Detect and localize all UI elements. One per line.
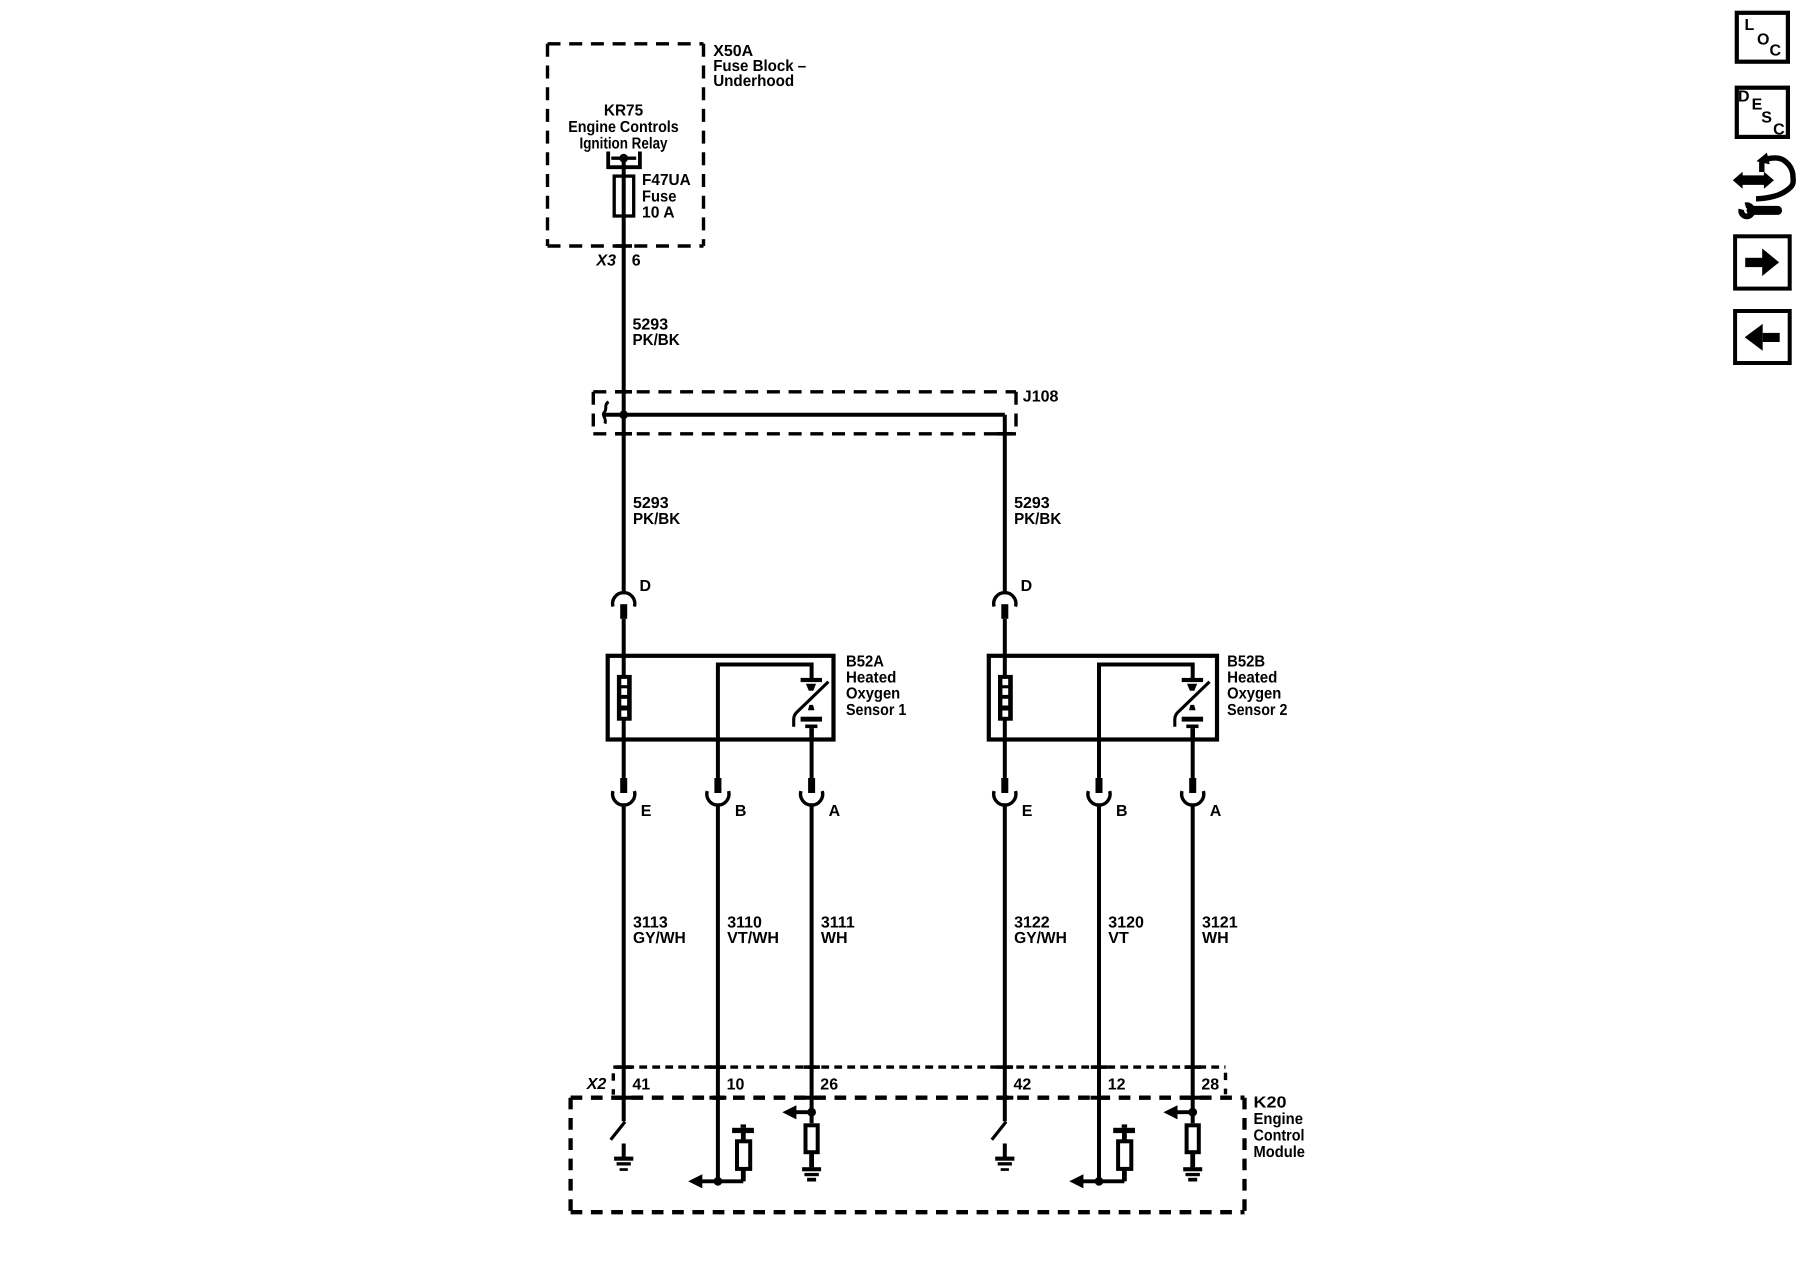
label KR75 Engine Controls Ignition Relay xyxy=(568,102,679,152)
svg-text:WH: WH xyxy=(821,930,848,947)
X2 dotted line left end bracket xyxy=(612,1073,615,1094)
svg-text:B: B xyxy=(1116,803,1128,820)
fuse F47UA xyxy=(614,176,634,216)
wire 3111 connector A to ECM pin 26 xyxy=(810,803,814,1123)
ticks at X2 dotted line wire crossings xyxy=(616,1065,1202,1069)
svg-text:GY/WH: GY/WH xyxy=(633,930,686,947)
label B52A Heated Oxygen Sensor 1 xyxy=(846,653,906,719)
label X50A Fuse Block - Underhood xyxy=(713,43,806,90)
wire D to sensor box right xyxy=(1003,619,1007,656)
resistor pin 26 xyxy=(806,1125,818,1167)
svg-text:C: C xyxy=(1773,122,1785,139)
svg-text:12: 12 xyxy=(1108,1076,1126,1093)
splice entry hook xyxy=(603,402,608,424)
wire 3121 connector A to ECM pin 28 xyxy=(1191,803,1195,1123)
svg-text:Fuse: Fuse xyxy=(642,188,676,205)
wire 3122 connector E to ECM pin 42 xyxy=(1003,803,1007,1121)
ground symbol pin 28 xyxy=(1183,1167,1202,1181)
heater element B52A xyxy=(617,675,632,721)
heated oxygen sensor B52A box xyxy=(608,656,834,740)
splice bus wire J108 xyxy=(604,413,1005,417)
ticks at J108 wire crossings xyxy=(616,390,633,394)
wire label 3121 WH xyxy=(1202,914,1238,946)
wire 3120 connector B to ECM pin 12 xyxy=(1097,803,1101,1181)
svg-text:5293: 5293 xyxy=(633,317,669,334)
svg-text:Engine Controls: Engine Controls xyxy=(568,119,679,136)
wire 3110 connector B to ECM pin 10 xyxy=(716,803,720,1181)
svg-text:PK/BK: PK/BK xyxy=(633,332,681,349)
wire label 3110 VT/WH xyxy=(727,914,779,946)
svg-text:B: B xyxy=(735,803,747,820)
svg-text:26: 26 xyxy=(820,1076,838,1093)
pull-up resistor pin 12 xyxy=(1118,1132,1131,1181)
svg-text:Heated: Heated xyxy=(846,670,896,687)
fuse block X50A dashed box xyxy=(548,44,704,246)
wire label 3122 GY/WH xyxy=(1014,914,1067,946)
icon circuit navigation (double arrow, loop, wrench) xyxy=(1733,153,1793,217)
pin label X3 | 6 xyxy=(595,252,640,269)
icon box previous-page arrow xyxy=(1735,311,1790,363)
svg-text:Oxygen: Oxygen xyxy=(846,686,900,703)
svg-text:41: 41 xyxy=(632,1076,650,1093)
connector D left sensor : socket arc xyxy=(613,593,635,607)
sensor cell element B52A xyxy=(794,678,829,728)
ECM K20 dashed box xyxy=(571,1098,1245,1213)
connector socket arc A left xyxy=(800,791,822,805)
wire sensor box to connector pin A left xyxy=(810,740,814,779)
sensor cell element B52B xyxy=(1175,678,1210,728)
wire splice to right sensor connector D xyxy=(1003,415,1007,594)
wire sensor cell to box bottom B52A xyxy=(809,728,814,739)
X2 dotted line right end bracket xyxy=(1224,1073,1227,1095)
connector D right sensor : pin xyxy=(1001,604,1008,619)
sensor cell internal wire B52A xyxy=(718,665,812,742)
ECM signal arrow pin 26 xyxy=(782,1105,811,1119)
wire sensor box to connector pin B right xyxy=(1097,740,1101,779)
ground symbol pin 41 xyxy=(614,1144,633,1171)
svg-text:Ignition Relay: Ignition Relay xyxy=(580,135,668,152)
wire sensor box to connector pin E left xyxy=(622,740,626,779)
svg-text:WH: WH xyxy=(1202,930,1229,947)
internal voltage source bar pin 12 xyxy=(1113,1124,1135,1133)
svg-text:Engine: Engine xyxy=(1254,1111,1304,1128)
ECM driver switch pin 42 xyxy=(992,1122,1006,1140)
svg-text:PK/BK: PK/BK xyxy=(633,511,681,528)
ECM signal arrow pin 10 xyxy=(688,1174,743,1188)
wire through heater B52A xyxy=(622,656,626,676)
ticks at ECM border wire crossings xyxy=(615,1096,1201,1100)
svg-text:E: E xyxy=(641,803,652,820)
svg-text:GY/WH: GY/WH xyxy=(1014,930,1067,947)
svg-text:J108: J108 xyxy=(1023,389,1059,406)
ECM connector X2 dotted line xyxy=(613,1065,1225,1068)
heater element B52B xyxy=(998,675,1013,721)
svg-text:F47UA: F47UA xyxy=(642,172,691,189)
sensor cell internal wire B52B xyxy=(1099,665,1193,742)
svg-text:O: O xyxy=(1757,31,1769,48)
svg-text:K20: K20 xyxy=(1254,1095,1287,1112)
connector socket arc B right xyxy=(1088,791,1110,805)
wire label 3111 WH xyxy=(821,914,855,946)
resistor pin 28 xyxy=(1187,1125,1199,1167)
wire sensor box to connector pin B left xyxy=(716,740,720,779)
wire 3113 connector E to ECM pin 41 xyxy=(622,803,626,1121)
ground symbol pin 26 xyxy=(802,1167,821,1181)
svg-text:X2: X2 xyxy=(586,1076,607,1093)
connector socket arc A right xyxy=(1182,791,1204,805)
splice pack J108 dashed box xyxy=(593,392,1016,434)
svg-text:Sensor 2: Sensor 2 xyxy=(1227,702,1287,719)
label B52B Heated Oxygen Sensor 2 xyxy=(1227,653,1287,719)
wire sensor cell to box bottom B52B xyxy=(1190,728,1195,739)
ECM signal arrow pin 12 xyxy=(1069,1174,1124,1188)
junction dot at splice xyxy=(619,410,628,419)
connector pin A right xyxy=(1189,778,1196,793)
svg-text:X3: X3 xyxy=(595,252,616,269)
pull-up resistor pin 10 xyxy=(737,1132,750,1181)
wire label 5293 PK/BK left branch xyxy=(633,495,681,528)
svg-text:A: A xyxy=(1210,803,1222,820)
svg-text:B52B: B52B xyxy=(1227,653,1265,670)
svg-text:VT/WH: VT/WH xyxy=(727,930,779,947)
icon box DESC xyxy=(1737,88,1788,139)
svg-text:L: L xyxy=(1745,17,1755,34)
ECM driver switch pin 41 xyxy=(611,1122,625,1140)
junction dot pin 10 xyxy=(714,1177,723,1186)
wire splice to left sensor connector D xyxy=(622,415,626,594)
junction dot pin 28 xyxy=(1188,1108,1197,1117)
label K20 Engine Control Module xyxy=(1254,1095,1306,1161)
wire from relay through fuse to X3 pin 6 xyxy=(622,158,626,250)
svg-text:6: 6 xyxy=(632,252,641,269)
svg-text:10: 10 xyxy=(727,1076,745,1093)
tick at X50A box bottom wire crossing xyxy=(616,244,633,248)
relay KR75 contact symbol xyxy=(608,152,640,168)
svg-text:28: 28 xyxy=(1201,1076,1219,1093)
ECM signal arrow pin 28 xyxy=(1163,1105,1192,1119)
svg-text:10 A: 10 A xyxy=(642,205,675,222)
heated oxygen sensor B52B box xyxy=(989,656,1217,740)
svg-text:Oxygen: Oxygen xyxy=(1227,686,1281,703)
connector D right sensor : socket arc xyxy=(994,593,1016,607)
wire sensor box to connector pin E right xyxy=(1003,740,1007,779)
connector socket arc E right xyxy=(994,791,1016,805)
connector pin A left xyxy=(808,778,815,793)
svg-text:PK/BK: PK/BK xyxy=(1014,511,1062,528)
wire D to sensor box left xyxy=(622,619,626,656)
svg-text:42: 42 xyxy=(1014,1076,1032,1093)
junction dot pin 26 xyxy=(807,1108,816,1117)
svg-text:D: D xyxy=(1021,578,1033,595)
connector pin B left xyxy=(714,778,721,793)
wire from X3-6 down to splice J108 xyxy=(622,251,626,415)
svg-text:5293: 5293 xyxy=(1014,495,1050,512)
wire through heater B52B xyxy=(1003,656,1007,676)
svg-text:5293: 5293 xyxy=(633,495,669,512)
svg-text:Sensor 1: Sensor 1 xyxy=(846,702,906,719)
svg-text:KR75: KR75 xyxy=(604,102,643,119)
wire label 5293 PK/BK right branch xyxy=(1014,495,1062,528)
svg-text:B52A: B52A xyxy=(846,653,884,670)
svg-text:Underhood: Underhood xyxy=(713,73,794,90)
ground symbol pin 42 xyxy=(995,1144,1014,1171)
svg-text:S: S xyxy=(1761,110,1772,127)
wire label 3113 GY/WH xyxy=(633,914,686,946)
connector pin E left xyxy=(620,778,627,793)
svg-text:E: E xyxy=(1022,803,1033,820)
pin number labels 41 10 26 42 12 28 xyxy=(632,1076,1219,1093)
junction dot pin 12 xyxy=(1095,1177,1104,1186)
connector pin E right xyxy=(1001,778,1008,793)
svg-text:D: D xyxy=(640,578,652,595)
wire label 5293 PK/BK upper xyxy=(633,317,681,350)
svg-text:Control: Control xyxy=(1254,1127,1305,1144)
icon box next-page arrow xyxy=(1735,236,1790,288)
svg-text:C: C xyxy=(1770,42,1782,59)
connector socket arc B left xyxy=(707,791,729,805)
svg-text:A: A xyxy=(829,803,841,820)
icon box LOC xyxy=(1737,13,1788,62)
svg-text:VT: VT xyxy=(1108,930,1129,947)
connector D left sensor : pin xyxy=(620,604,627,619)
svg-text:Module: Module xyxy=(1254,1144,1306,1161)
connector socket arc E left xyxy=(613,791,635,805)
wire sensor box to connector pin A right xyxy=(1191,740,1195,779)
svg-text:D: D xyxy=(1738,89,1750,106)
connector pin B right xyxy=(1096,778,1103,793)
internal voltage source bar pin 10 xyxy=(732,1124,754,1133)
wire label 3120 VT xyxy=(1108,914,1144,946)
svg-text:Heated: Heated xyxy=(1227,670,1277,687)
label F47UA Fuse 10 A xyxy=(642,172,691,222)
